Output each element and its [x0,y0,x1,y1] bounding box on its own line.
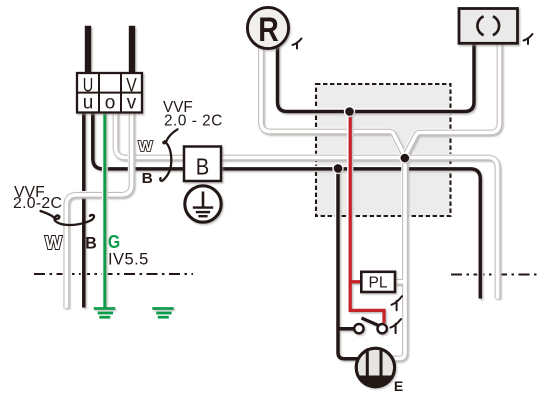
i label for PL [392,296,403,310]
wire black#1 down from u terminal [81,110,87,308]
feeder stub right [129,26,135,74]
katakana i labels [293,34,533,333]
svg-text:E: E [394,378,403,394]
dash-dot ground line left [34,273,193,275]
wire green earth from o terminal [102,110,108,308]
green ground symbol 1 [94,309,115,318]
outlet with earth E [356,348,403,394]
wire white from ceiling light to Y junction [405,41,500,156]
svg-text:W: W [138,138,153,155]
wire white drop: Y junction to PL and outlet [393,158,405,359]
label W outline (right) [138,138,153,155]
ceiling light box [459,9,518,44]
cable arc right (VVF 2.0-2C pointer) [160,129,177,181]
svg-text:2.0-2C: 2.0-2C [13,195,62,212]
cable arc left (VVF 2.0-2C pointer) [41,211,95,225]
svg-text:PL: PL [369,275,388,292]
i label for ceiling [524,34,533,44]
svg-text:u: u [83,93,94,114]
svg-text:v: v [127,93,137,114]
terminal box U/V/uov [77,73,142,114]
breaker B box [184,147,221,182]
junction dot B (white Y) [399,152,410,163]
junction dot C (black drop) [332,163,343,174]
svg-text:IV5.5: IV5.5 [108,251,149,269]
wire white neutral: v terminal to right side down [116,110,498,299]
earth circle symbol under B [185,186,221,222]
i label for switch [391,319,402,333]
svg-text:B: B [142,171,153,187]
svg-text:2.0 - 2C: 2.0 - 2C [164,112,223,129]
svg-text:G: G [108,232,120,252]
svg-text:B: B [196,153,210,179]
svg-text:R: R [258,11,279,49]
i label for R [293,39,302,49]
wire white S-curve down from v terminal [66,110,131,308]
feeder stub left [85,26,91,74]
junction box (dashed gray) [316,84,451,216]
junction dot A (red tap) [344,106,355,117]
wire black hot: u terminal to B box to junction box to lower right [93,110,481,299]
wire white from R to Y junction [261,44,405,156]
wire black lamp loop: R receptacle to ceiling light [278,41,475,112]
wire red: junction to PL and switch [350,112,384,323]
svg-text:B: B [85,234,97,253]
label W outline (left) [45,233,62,253]
svg-text:W: W [45,233,62,253]
dash-dot ground line right [451,274,539,276]
wire black drop: junction to switch and outlet [338,168,361,358]
svg-text:o: o [105,93,116,114]
lamp receptacle R [247,7,288,49]
switch [354,318,387,333]
pilot lamp PL box [361,272,395,292]
green ground symbol 2 [152,309,173,318]
